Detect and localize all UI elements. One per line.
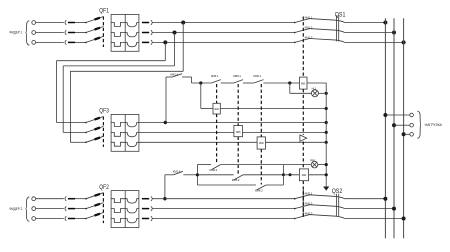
QF2 pole 3 release mark	[95, 214, 101, 216]
wire	[404, 133, 410, 135]
wire jog	[191, 77, 193, 83]
wire to bus	[345, 208, 394, 210]
node	[289, 173, 292, 176]
node tap on top bus	[163, 40, 167, 44]
control line segments with contacts	[192, 82, 212, 84]
relay contact КМ4.1 blade	[211, 80, 220, 83]
wire	[166, 76, 173, 78]
node QF3 row1 tap	[164, 121, 167, 124]
node tap on top bus	[181, 21, 185, 25]
QF1 pole 2 blade	[86, 27, 104, 33]
QF1 pole 2 pivot	[85, 32, 87, 34]
connector pin (thick)	[142, 32, 149, 34]
wire	[318, 164, 326, 166]
QF3 magnetic release 1	[125, 123, 139, 127]
load terminal 2	[410, 123, 414, 127]
wire to bus	[345, 218, 404, 220]
QF2 pole 1 blade	[86, 193, 104, 199]
QF2 thermal release 1	[111, 199, 125, 203]
QF1 pole 3 pivot	[85, 42, 87, 44]
terminal X2.1	[32, 197, 36, 201]
wire	[153, 198, 295, 200]
load terminal 3	[410, 133, 414, 137]
connector socket	[151, 30, 152, 35]
wire down	[174, 33, 176, 66]
wire QF3 output	[139, 131, 326, 133]
wire	[153, 32, 295, 34]
wire	[36, 198, 64, 200]
QF2 pole 2 release mark	[95, 204, 101, 206]
QF1 pole 3 release mark	[95, 38, 101, 40]
output busbar 3	[403, 18, 405, 238]
QF3 pole 1 blade	[86, 117, 104, 123]
wire riser from middle row1	[165, 77, 167, 123]
wire	[153, 41, 295, 43]
svg-text:КМ4: КМ4	[214, 108, 219, 111]
node	[325, 92, 328, 95]
connector socket	[151, 20, 152, 25]
QF1 thermal release 3	[111, 42, 125, 46]
connector socket	[151, 216, 152, 221]
wire	[243, 174, 299, 176]
node	[282, 173, 285, 176]
wire to bus	[345, 22, 386, 24]
wire	[36, 32, 64, 34]
wire to QF3 pole	[63, 131, 86, 133]
relay contact КМ5.1 blade	[234, 80, 243, 83]
wire down from control line	[200, 83, 202, 109]
QF3 trip unit box	[111, 114, 139, 151]
connector socket	[65, 40, 66, 45]
wire left	[70, 70, 183, 72]
relay contact КМ6.2 blade	[257, 185, 267, 190]
wire	[385, 114, 409, 116]
contactor contact КМ1.2 blade	[294, 32, 296, 34]
QF3 pole 2 pivot	[85, 132, 87, 134]
wire	[36, 218, 64, 220]
wire to QF3 pole	[57, 122, 87, 124]
connector socket	[65, 30, 66, 35]
terminal X2.3	[32, 217, 36, 221]
relay contact КМ6.1 blade	[254, 80, 264, 83]
connector pin (thick)	[142, 208, 149, 210]
node	[288, 81, 291, 84]
linkage КМ6	[260, 84, 262, 137]
disconnector QS1 bars	[335, 15, 337, 41]
connector pin (thick)	[142, 22, 149, 24]
QF1 box divider	[124, 14, 126, 51]
node	[196, 173, 199, 176]
QF1 thermal release 2	[111, 33, 125, 37]
wire	[153, 218, 295, 220]
wire	[307, 82, 326, 84]
connector pin (thick)	[68, 41, 75, 43]
QF3 pole 2 blade	[86, 126, 104, 132]
lamp HL1	[311, 90, 318, 97]
latch symbol	[300, 135, 307, 141]
svg-text:КМ1: КМ1	[301, 83, 306, 86]
connector socket	[65, 216, 66, 221]
svg-text:ФИДЕР 1: ФИДЕР 1	[9, 30, 22, 35]
QF1 pole 1 blade	[86, 17, 104, 23]
QF2 pole 1 pivot	[85, 198, 87, 200]
node bus 2	[392, 207, 396, 211]
lamp HL2	[311, 161, 318, 168]
QF3 box divider	[124, 114, 126, 151]
wire	[182, 76, 192, 78]
main linkage КМ1/КМ2	[302, 89, 304, 135]
svg-text:QS2: QS2	[332, 188, 343, 195]
connector pin (thick)	[68, 208, 75, 210]
svg-text:QF1: QF1	[99, 7, 109, 14]
wire QF3 output	[139, 122, 326, 124]
wire	[165, 174, 174, 176]
node load tap 3	[402, 132, 406, 136]
QF3 thermal release 2	[111, 132, 125, 136]
relay coil КМ5	[234, 126, 243, 137]
connector socket	[151, 40, 152, 45]
contactor contact КМ2.2 blade	[294, 208, 296, 210]
QF3 thermal release 3	[111, 142, 125, 146]
node tap on top bus	[173, 31, 177, 35]
node	[199, 81, 202, 84]
QF3 pole 1 release mark	[95, 118, 101, 120]
QF2 mechanical linkage	[102, 193, 104, 223]
wire down to QF3	[56, 61, 58, 123]
QF1 magnetic release 3	[125, 42, 139, 46]
wire	[309, 174, 327, 176]
relay coil КМ6	[257, 137, 265, 149]
wire	[36, 41, 64, 43]
svg-text:КМ6.2: КМ6.2	[255, 189, 263, 193]
control bus vertical	[325, 83, 327, 186]
connector socket	[151, 196, 152, 201]
wire down to QF3	[62, 66, 64, 132]
terminal X2.2	[32, 207, 36, 211]
wire	[153, 22, 295, 24]
node bus 3	[402, 217, 406, 221]
QF1 thermal release 1	[111, 23, 125, 27]
wire	[36, 22, 64, 24]
wire to QF3 pole	[70, 141, 86, 143]
QF3 pole 3 release mark	[95, 138, 101, 140]
node	[325, 131, 328, 134]
QF2 pole 3 pivot	[85, 218, 87, 220]
svg-text:КМ5.1: КМ5.1	[233, 74, 241, 78]
connector socket	[65, 196, 66, 201]
svg-text:НАГРУЗКА: НАГРУЗКА	[425, 123, 443, 127]
wire	[153, 208, 295, 210]
wire	[75, 218, 86, 220]
brace for load	[417, 111, 421, 138]
QF1 magnetic release 1	[125, 23, 139, 27]
wire	[75, 32, 86, 34]
svg-text:КМ6: КМ6	[259, 142, 264, 145]
wire down	[182, 23, 184, 72]
node	[163, 197, 166, 200]
КМ1 contacts linkage	[302, 17, 304, 78]
QF2 trip unit box	[111, 191, 139, 228]
QF2 box divider	[124, 191, 126, 228]
wire to bus	[345, 32, 394, 34]
contactor contact КМ2.3 blade	[294, 218, 296, 220]
wire branch3	[197, 184, 256, 186]
wire	[318, 92, 326, 94]
wire	[75, 41, 86, 43]
svg-text:КМ4.1: КМ4.1	[211, 74, 219, 78]
wire	[75, 208, 86, 210]
connector socket	[65, 20, 66, 25]
node	[325, 141, 328, 144]
wire	[75, 198, 86, 200]
wire rung	[201, 108, 213, 110]
output busbar 2	[393, 18, 395, 238]
wire	[394, 124, 410, 126]
aux contact КМ1.4 blade	[173, 171, 183, 174]
svg-text:КМ5: КМ5	[236, 131, 241, 134]
wire riser from bottom bus	[164, 175, 166, 199]
node bus 1	[383, 197, 387, 201]
wire left	[57, 60, 166, 62]
QF3 thermal release 1	[111, 123, 125, 127]
QF3 pole 3 pivot	[85, 142, 87, 144]
QF3 pole 2 release mark	[95, 128, 101, 130]
connector pin (thick)	[142, 198, 149, 200]
output busbar 1	[384, 18, 386, 238]
contactor contact КМ1.1 blade	[294, 22, 296, 24]
tie vertical	[282, 165, 284, 185]
connector socket	[151, 206, 152, 211]
contactor contact КМ1.3 blade	[294, 42, 296, 44]
QF2 pole 1 release mark	[95, 194, 101, 196]
QF3 pole 1 pivot	[85, 122, 87, 124]
terminal X1.2	[32, 31, 36, 35]
QF2 thermal release 3	[111, 219, 125, 223]
wire rung	[220, 108, 326, 110]
arrow to QS2	[323, 187, 329, 191]
QF3 pole 3 blade	[86, 136, 104, 142]
node bus 1	[383, 21, 387, 25]
svg-text:QF3: QF3	[99, 108, 109, 115]
wire down to QF3	[69, 71, 71, 142]
load terminal 1	[410, 113, 414, 117]
QF2 pole 2 pivot	[85, 208, 87, 210]
brace for ФИДЕР 1	[26, 21, 30, 46]
wire	[243, 82, 254, 84]
connector socket	[65, 206, 66, 211]
svg-text:КМ2: КМ2	[302, 174, 307, 177]
rail vertical	[196, 165, 198, 185]
relay contact КМ4.2 blade	[212, 165, 221, 170]
node	[325, 163, 328, 166]
terminal X1.1	[32, 21, 36, 25]
QF1 pole 1 release mark	[95, 18, 101, 20]
QF2 magnetic release 3	[125, 219, 139, 223]
connector pin (thick)	[68, 218, 75, 220]
linkage КМ4	[216, 84, 218, 103]
wire QF3 output	[139, 141, 326, 143]
aux contact КМ2.4 blade	[173, 74, 183, 77]
QF1 pole 2 release mark	[95, 28, 101, 30]
node bus 3	[402, 40, 406, 44]
QF2 magnetic release 1	[125, 199, 139, 203]
contactor coil КМ2	[299, 169, 308, 181]
relay contact КМ5.2 blade	[234, 175, 243, 180]
wire	[221, 164, 312, 166]
brace for ФИДЕР 2	[26, 197, 30, 222]
QF1 trip unit box	[111, 14, 139, 51]
svg-text:ФИДЕР 2: ФИДЕР 2	[9, 206, 22, 211]
wire	[36, 208, 64, 210]
QF1 pole 1 pivot	[85, 22, 87, 24]
disconnector QS2 bars	[335, 194, 337, 217]
QF3 magnetic release 3	[125, 142, 139, 146]
QF2 magnetic release 2	[125, 209, 139, 213]
node load tap 2	[392, 123, 396, 127]
QF2 pole 3 blade	[86, 213, 104, 219]
svg-text:КМ6.1: КМ6.1	[253, 74, 261, 78]
wire	[221, 82, 234, 84]
КМ2 contacts linkage	[302, 190, 304, 217]
QF1 pole 3 blade	[86, 36, 104, 42]
wire lamp branch	[289, 83, 291, 93]
node bus 2	[392, 31, 396, 35]
connector pin (thick)	[142, 41, 149, 43]
wire branch1	[197, 164, 211, 166]
wire	[183, 174, 197, 176]
connector pin (thick)	[68, 32, 75, 34]
wire left	[63, 65, 174, 67]
connector pin (thick)	[68, 22, 75, 24]
wire	[266, 184, 283, 186]
node	[325, 121, 328, 124]
terminal X1.3	[32, 41, 36, 45]
contactor coil КМ1	[300, 77, 308, 89]
contactor contact КМ2.1 blade	[294, 198, 296, 200]
QF2 pole 2 blade	[86, 203, 104, 209]
wire branch2	[197, 174, 233, 176]
wire to bus	[345, 198, 386, 200]
wire	[75, 22, 86, 24]
node	[325, 107, 328, 110]
QF1 mechanical linkage	[102, 17, 104, 48]
QF2 thermal release 2	[111, 209, 125, 213]
wire down	[164, 42, 166, 60]
svg-text:QF2: QF2	[99, 184, 109, 191]
linkage КМ5	[237, 84, 239, 126]
connector pin (thick)	[142, 218, 149, 220]
node	[325, 173, 328, 176]
relay coil КМ4	[213, 103, 220, 114]
wire to bus	[345, 41, 404, 43]
connector pin (thick)	[68, 198, 75, 200]
QF3 mechanical linkage	[102, 117, 104, 147]
QF3 magnetic release 2	[125, 132, 139, 136]
QF1 magnetic release 2	[125, 33, 139, 37]
wire	[264, 82, 300, 84]
node load tap 1	[383, 113, 387, 117]
